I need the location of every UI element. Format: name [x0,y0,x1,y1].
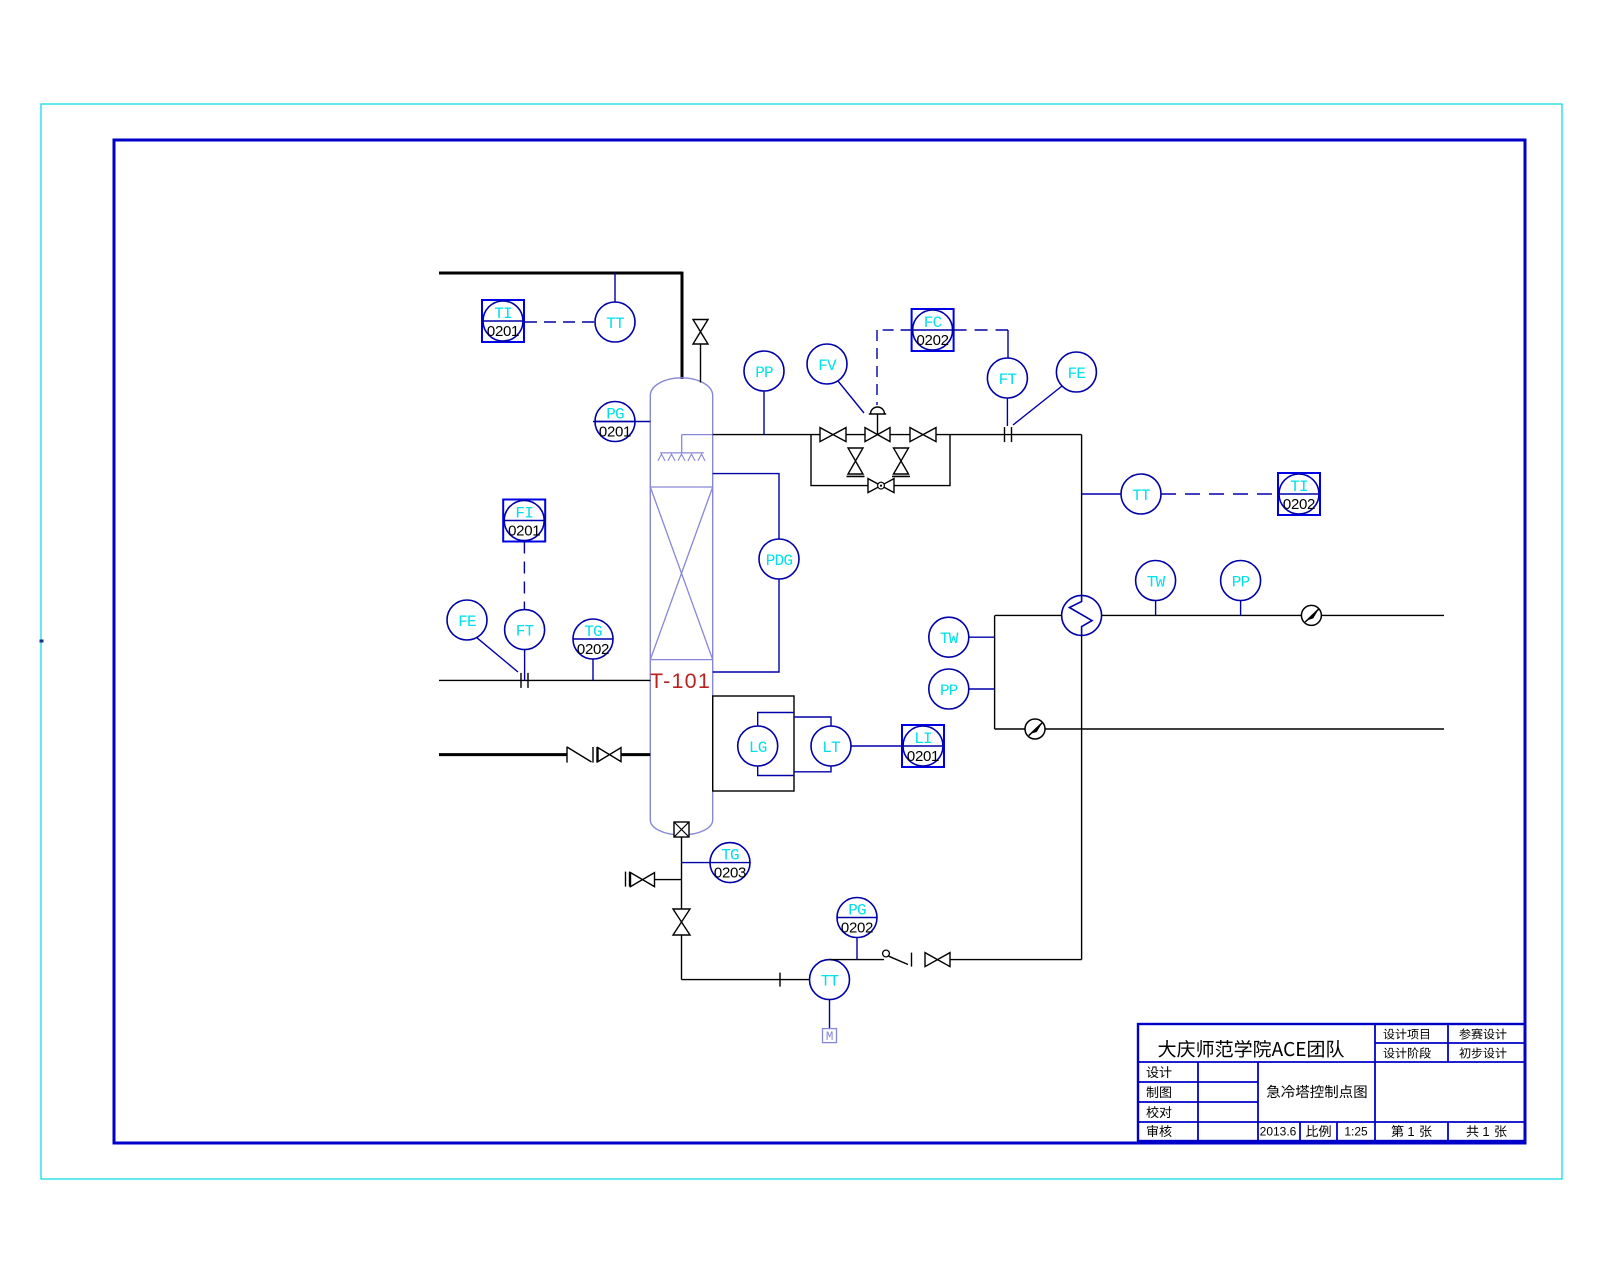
svg-text:1:25: 1:25 [1344,1125,1368,1139]
transmitter TT (bottoms) [810,960,850,1000]
svg-text:2013.6: 2013.6 [1260,1125,1297,1139]
wire: circulation branch [994,615,996,729]
svg-text:PG: PG [848,902,866,920]
svg-text:FT: FT [516,623,534,641]
vessel T-101 shell [650,378,712,835]
wire: cooled product line [995,614,1062,616]
wire: overhead pipe [713,434,820,436]
label sheet total [1467,1125,1479,1137]
label 设计项目 [1384,1028,1429,1039]
indicator TI 0202 (boxed) [1278,473,1320,515]
point PP (circulation) [929,669,969,709]
wire: downcomer [1081,435,1083,596]
svg-text:1: 1 [1482,1124,1489,1139]
gauge PG 0201 [593,421,650,423]
svg-text:TW: TW [1147,574,1166,592]
spray header with nozzles [682,434,713,436]
title company name [1158,1040,1344,1058]
label sheet no [1391,1125,1403,1137]
svg-text:0201: 0201 [907,748,939,765]
svg-text:LI: LI [914,730,932,748]
svg-text:TG: TG [721,847,739,865]
signal wire LT to LI0201 [851,745,902,747]
svg-text:FT: FT [999,371,1017,389]
gate valve (return) [598,748,621,762]
wire: bottoms return (thick) [439,753,567,756]
svg-text:M: M [826,1030,834,1044]
svg-text:FI: FI [515,505,533,523]
bypass globe valve [868,479,894,493]
pressure point PP [763,391,765,435]
signal wire TT to TI0202 (dashed) [1161,493,1278,495]
signal wire TT to TI0201 (dashed) [525,321,595,323]
level bridle standpipe [713,696,794,791]
orifice flanges FE0201 [520,673,522,688]
svg-text:PDG: PDG [766,552,793,570]
svg-text:TI: TI [494,305,512,323]
svg-text:TT: TT [1132,487,1150,505]
svg-text:TI: TI [1290,478,1308,496]
outer drawing border (cyan) [41,104,1562,1179]
motor M [829,1000,831,1029]
drain valve 1 (manifold) [848,448,863,474]
gauge LG (level glass) [738,726,778,766]
wire: pump discharge [830,959,884,961]
gauge TG 0203 [710,843,750,883]
svg-text:PP: PP [940,682,958,700]
wire: dP tapping [713,474,779,672]
transmitter LT taps [794,717,831,772]
valve FV bubble [807,344,847,384]
drain valve 2 (manifold) [894,448,909,474]
block valve downstream [910,428,936,442]
control valve actuator [877,414,879,435]
border centering tick [40,640,44,643]
well TW (circulation) [929,617,969,657]
signal wire FI to FT (dashed) [523,542,525,610]
flow indicator (circulation) [1025,719,1045,739]
svg-text:FE: FE [458,613,476,631]
wire: drain to pump [682,979,811,981]
svg-text:1: 1 [1407,1124,1414,1139]
flange ticks [592,747,594,763]
svg-text:TT: TT [606,315,624,333]
label 设计 [1147,1066,1172,1078]
wire: discharge to exchanger [950,959,1082,961]
svg-text:0201: 0201 [487,323,519,340]
svg-text:PP: PP [1232,574,1250,592]
drawing title 急冷塔控制点图 [1267,1085,1367,1098]
svg-text:0201: 0201 [599,424,631,441]
svg-text:TW: TW [940,630,959,648]
well TW (product) [1136,561,1176,601]
side drain valve [625,872,627,887]
point PP (product) [1221,561,1261,601]
gauge TG 0202 [573,619,613,659]
controller FC 0202 (boxed) [912,309,954,351]
flow indicator (product line) [1301,605,1321,625]
bottom nozzle (blind) [674,822,689,837]
label 比例 [1306,1125,1331,1137]
svg-text:FC: FC [924,314,942,332]
transmitter FT (feed flow) [505,610,545,650]
drain valve (vertical) [673,909,690,935]
element FE (feed flow) [447,600,487,640]
label 初步设计 [1459,1047,1506,1058]
orifice flanges FE [1004,427,1006,442]
svg-text:FE: FE [1068,365,1086,383]
transmitter LT (level) [811,726,851,766]
svg-text:0203: 0203 [714,865,746,882]
svg-text:FV: FV [818,357,837,375]
element FE (flow) [1056,352,1096,392]
control valve FV body [865,428,890,442]
transmitter TT (line temperature) [1082,493,1121,495]
vent valve on tower top [700,344,702,383]
plug valve (ball+stem) [883,950,890,957]
block valve upstream [820,428,846,442]
bypass pipe [811,435,950,486]
svg-text:TT: TT [821,973,839,991]
label 校对 [1146,1106,1171,1118]
gauge PG 0202 [837,898,877,938]
label 设计阶段 [1384,1047,1431,1058]
indicator TI 0201 (boxed) [482,300,524,342]
signal wire FC to valve (dashed) [877,329,912,331]
gate valve (discharge) [925,953,950,967]
signal wire FC to FT (dashed) [954,329,1008,331]
label 制图 [1147,1086,1171,1098]
svg-text:0202: 0202 [917,332,949,349]
svg-text:0202: 0202 [1283,496,1315,513]
wire: bottoms drain [681,837,683,909]
svg-text:LG: LG [749,739,767,757]
indicator LI 0201 (boxed) [902,725,944,767]
transmitter FT (flow) [987,358,1027,398]
svg-text:TG: TG [584,623,602,641]
label 审核 [1147,1125,1172,1137]
transmitter TT (overhead temperature) [595,302,635,342]
label 参赛设计 [1459,1028,1506,1039]
svg-text:0201: 0201 [508,523,540,540]
inner drawing frame (blue) [114,140,1525,1143]
svg-text:0202: 0202 [577,641,609,658]
packing bed (X section) [650,486,712,488]
heat exchanger E (circle with coil) [1062,595,1102,635]
svg-text:0202: 0202 [841,920,873,937]
gauge PDG (bed differential pressure) [759,539,799,579]
check valve [566,747,568,763]
svg-text:LT: LT [822,739,840,757]
wire: overhead vapour feed (thick) [439,272,682,275]
node: TT-branch tee [614,273,616,302]
svg-text:PP: PP [755,364,773,382]
signal wire FV to actuator [838,381,864,413]
svg-text:PG: PG [606,406,624,424]
indicator FI 0201 (boxed) [503,500,545,542]
wire: quench water feed [439,679,650,681]
gauge LG taps [758,713,794,776]
svg-text:T-101: T-101 [650,669,711,693]
title block grid [1138,1024,1525,1141]
